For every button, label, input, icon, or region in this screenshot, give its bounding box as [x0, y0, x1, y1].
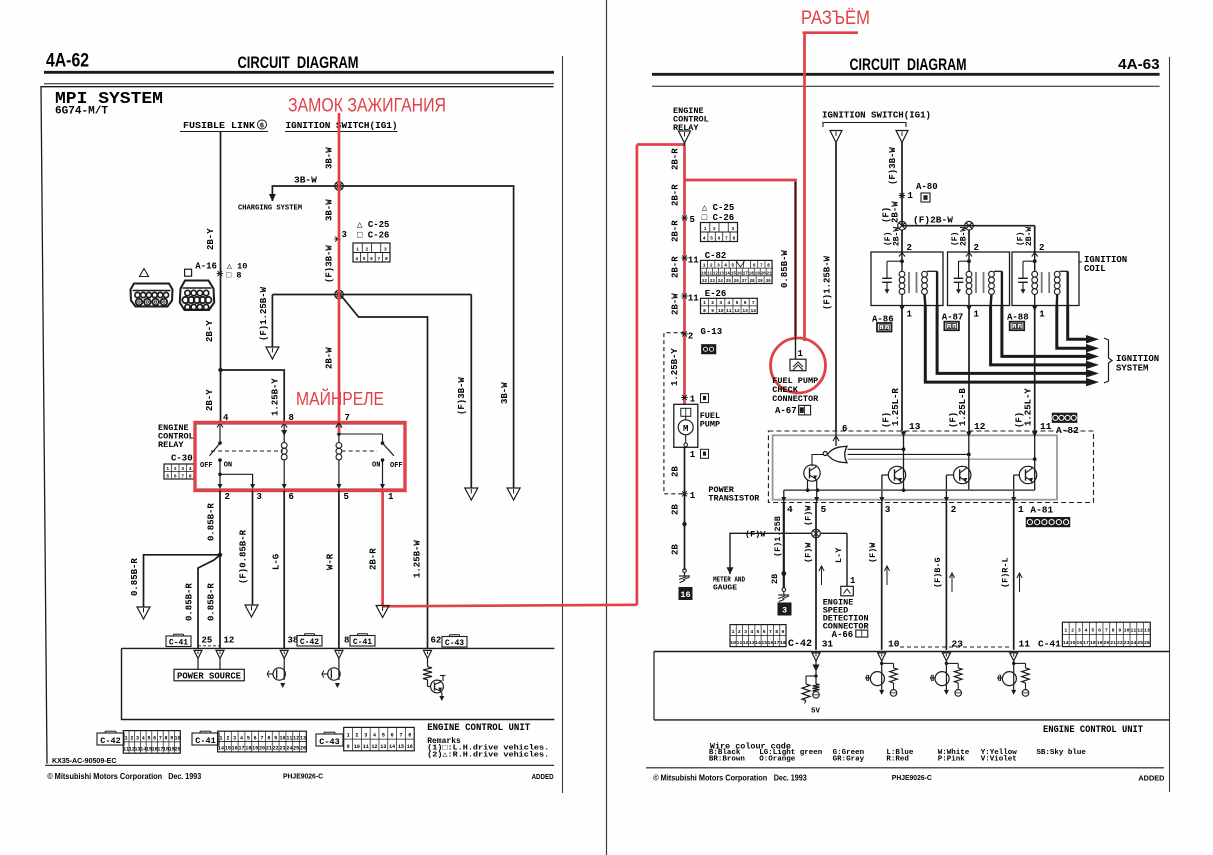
svg-text:3: 3: [364, 733, 367, 739]
power transistor dashed box: [768, 431, 1093, 503]
wire pin1 to ECU 11: [1013, 503, 1015, 650]
svg-text:2B-R: 2B-R: [671, 256, 681, 278]
power transistor inner box: [773, 435, 1057, 499]
svg-text:10: 10: [1124, 628, 1130, 634]
svg-text:19: 19: [252, 746, 258, 752]
svg-text:8: 8: [703, 308, 706, 314]
multi-pin connector drawing left: [131, 284, 173, 307]
svg-text:16: 16: [680, 590, 690, 600]
svg-text:0.85B-R: 0.85B-R: [185, 583, 195, 621]
svg-text:29: 29: [758, 280, 764, 284]
svg-text:17: 17: [774, 640, 780, 646]
svg-text:1: 1: [798, 349, 804, 359]
svg-text:6: 6: [260, 123, 264, 131]
black box 16: [679, 588, 692, 600]
svg-text:IGNITION: IGNITION: [1116, 354, 1159, 364]
svg-text:16: 16: [232, 746, 238, 752]
fusible link circled 6: [258, 120, 267, 129]
marker star 1 A-80: [899, 195, 905, 197]
wire pin3 to ECU 10: [881, 503, 883, 650]
wire right branch (F)3B-W down: [470, 295, 472, 489]
svg-text:7: 7: [181, 473, 184, 479]
svg-text:CIRCUIT DIAGRAM: CIRCUIT DIAGRAM: [850, 56, 967, 74]
svg-text:ADDED: ADDED: [1138, 774, 1165, 783]
svg-text:9: 9: [170, 735, 173, 741]
svg-text:3: 3: [885, 504, 891, 515]
svg-text:22: 22: [273, 746, 279, 752]
svg-text:(F)W: (F)W: [868, 542, 878, 563]
relay internals left switch: [217, 423, 223, 428]
svg-text:A-66: A-66: [832, 630, 854, 640]
svg-text:МАЙНРЕЛЕ: МАЙНРЕЛЕ: [296, 388, 384, 409]
svg-text:4: 4: [724, 263, 727, 269]
wire pin1 2B-R black arrow: [376, 606, 389, 618]
svg-text:(F)3B-W: (F)3B-W: [457, 377, 467, 415]
ground fuel pump: [683, 569, 687, 573]
svg-text:2: 2: [365, 247, 368, 253]
wire branch 25: [198, 555, 220, 649]
svg-text:CHARGING SYSTEM: CHARGING SYSTEM: [238, 205, 302, 213]
svg-text:2B: 2B: [770, 574, 780, 584]
bottom connector C-42 label: [97, 733, 124, 745]
svg-text:3: 3: [744, 629, 747, 635]
svg-text:5: 5: [1091, 628, 1094, 634]
svg-text:3: 3: [719, 300, 722, 306]
svg-text:L-G: L-G: [272, 554, 282, 570]
svg-text:9: 9: [781, 629, 784, 635]
svg-text:A-16: A-16: [195, 262, 217, 272]
wire engine control relay to fuel pump: [684, 143, 686, 404]
arrow D incoming: [830, 131, 842, 143]
svg-text:FUSIBLE LINK: FUSIBLE LINK: [183, 120, 255, 131]
connector C-42 right grid: [730, 625, 786, 647]
svg-text:1: 1: [732, 629, 735, 635]
svg-text:4: 4: [355, 256, 358, 262]
svg-text:(F)2B-W: (F)2B-W: [913, 215, 953, 226]
svg-text:SYSTEM: SYSTEM: [1116, 364, 1148, 374]
wire engine speed detection connector: [846, 533, 848, 586]
svg-text:12: 12: [734, 308, 740, 314]
svg-text:11: 11: [363, 744, 369, 750]
svg-text:8: 8: [1112, 628, 1115, 634]
collector verticals: [903, 431, 905, 490]
transistor T2: [888, 466, 905, 483]
svg-text:(F)0.85B-R: (F)0.85B-R: [239, 529, 249, 584]
svg-text:0.85B-W: 0.85B-W: [780, 250, 790, 288]
svg-text:15: 15: [398, 744, 404, 750]
svg-text:1: 1: [907, 310, 913, 320]
red wire engine control relay down: [683, 146, 686, 404]
wire horizontal charging system branch: [272, 186, 513, 488]
svg-text:L-Y: L-Y: [834, 547, 844, 563]
svg-text:24: 24: [1131, 640, 1137, 646]
svg-text:2B-R: 2B-R: [671, 148, 681, 170]
svg-text:5: 5: [731, 263, 734, 269]
svg-text:3: 3: [233, 735, 236, 741]
wire horizontal to 1.25B-W branch: [272, 294, 471, 296]
svg-text:20: 20: [761, 272, 767, 276]
svg-text:2: 2: [711, 300, 714, 306]
svg-text:5: 5: [821, 504, 827, 515]
svg-text:1: 1: [703, 300, 706, 306]
svg-text:□ C-26: □ C-26: [702, 213, 734, 223]
svg-text:GAUGE: GAUGE: [713, 585, 738, 593]
red wire to engine control relay arrow: [637, 143, 685, 146]
red branch from relay wire to connector: [685, 180, 796, 337]
svg-text:4: 4: [1085, 628, 1088, 634]
red wire right page vertical up: [636, 145, 639, 605]
svg-text:11: 11: [1131, 628, 1137, 634]
svg-text:1: 1: [220, 735, 223, 741]
svg-text:6: 6: [763, 629, 766, 635]
svg-text:C-42: C-42: [788, 639, 812, 650]
svg-text:25: 25: [726, 280, 732, 284]
black box 3: [778, 603, 791, 615]
svg-text:2B-W: 2B-W: [960, 227, 969, 246]
svg-text:1.25L-B: 1.25L-B: [958, 388, 968, 426]
page divider line: [606, 0, 608, 855]
svg-text:14: 14: [218, 746, 224, 752]
svg-text:25: 25: [293, 746, 299, 752]
svg-text:7: 7: [159, 735, 162, 741]
wire pin5 to ECU 31: [815, 503, 817, 650]
svg-text:7: 7: [725, 236, 728, 242]
svg-text:16: 16: [407, 744, 413, 750]
wire ignition switch 3B-W black: [338, 132, 340, 425]
svg-text:6: 6: [753, 263, 756, 269]
svg-text:5: 5: [690, 215, 695, 225]
connector C-25/C-26 grid: [353, 243, 390, 262]
svg-text:E-26: E-26: [705, 289, 727, 299]
svg-text:PHJE9026-C: PHJE9026-C: [283, 772, 324, 781]
svg-text:15: 15: [225, 746, 231, 752]
svg-text:KX35-AC-90509-EC: KX35-AC-90509-EC: [52, 758, 117, 765]
svg-text:3: 3: [342, 230, 347, 240]
svg-text:12: 12: [372, 744, 378, 750]
svg-text:2: 2: [951, 504, 957, 515]
svg-text:(F)W: (F)W: [745, 530, 766, 540]
svg-text:12: 12: [713, 272, 719, 276]
svg-text:CIRCUIT DIAGRAM: CIRCUIT DIAGRAM: [238, 53, 359, 72]
ECU pin labels: [166, 636, 191, 647]
svg-text:14: 14: [725, 272, 731, 276]
wire pin6 L-G: [283, 491, 285, 649]
svg-text:3B-W: 3B-W: [325, 147, 335, 169]
svg-text:6G74-M/T: 6G74-M/T: [55, 106, 108, 118]
svg-text:OFF: OFF: [200, 462, 213, 470]
dashed connector bracket pins 25 12: [198, 645, 220, 647]
svg-text:8: 8: [385, 256, 388, 262]
svg-text:4: 4: [240, 735, 243, 741]
wire 0.85B-W to check connector: [795, 182, 797, 359]
connector C-82 grid: [701, 260, 773, 283]
svg-text:17: 17: [743, 272, 749, 276]
svg-text:2: 2: [688, 331, 693, 341]
svg-text:11: 11: [286, 735, 292, 741]
svg-text:1: 1: [1064, 628, 1067, 634]
svg-text:2: 2: [174, 466, 177, 472]
svg-text:6: 6: [1098, 628, 1101, 634]
wire (F)1.25B-W to power transistor: [835, 143, 837, 432]
svg-text:2B-W: 2B-W: [1025, 227, 1034, 246]
svg-text:30: 30: [766, 280, 772, 284]
svg-text:1: 1: [1018, 504, 1024, 515]
svg-text:9: 9: [1118, 628, 1121, 634]
svg-text:6: 6: [153, 735, 156, 741]
svg-text:7: 7: [399, 733, 402, 739]
svg-text:5: 5: [757, 629, 760, 635]
svg-text:A-67: A-67: [775, 406, 797, 416]
junction circle X lower: [335, 290, 344, 299]
svg-text:2B-R: 2B-R: [671, 220, 681, 242]
svg-text:5: 5: [247, 735, 250, 741]
ignition switch bracket: [823, 123, 906, 128]
connector marker A-16 star: [217, 273, 223, 275]
svg-text:(F)R-L: (F)R-L: [1001, 557, 1011, 588]
svg-text:РАЗЪЁМ: РАЗЪЁМ: [801, 7, 870, 29]
svg-text:A-80: A-80: [916, 182, 938, 192]
relay black outline: [196, 424, 405, 489]
svg-text:C-42: C-42: [100, 736, 120, 746]
svg-text:13: 13: [1144, 628, 1150, 634]
svg-text:26: 26: [1144, 640, 1150, 646]
svg-text:1.25B-Y: 1.25B-Y: [670, 348, 680, 386]
right page edge line: [1169, 57, 1171, 792]
svg-text:METER AND: METER AND: [713, 577, 745, 585]
svg-text:PUMP: PUMP: [700, 420, 720, 430]
wire meter and gauge branch: [730, 533, 811, 574]
svg-text:△ C-25: △ C-25: [357, 220, 389, 230]
svg-text:2B: 2B: [671, 504, 681, 515]
marker star 5: [681, 217, 687, 219]
connector E-26 grid: [701, 298, 758, 313]
svg-text:22: 22: [702, 280, 708, 284]
red wire relay pin1 down: [381, 489, 384, 606]
svg-text:Dec. 1993: Dec. 1993: [168, 772, 201, 781]
svg-text:3: 3: [731, 226, 734, 232]
svg-text:8: 8: [165, 735, 168, 741]
svg-text:11: 11: [707, 272, 713, 276]
svg-text:8: 8: [344, 636, 349, 646]
gate input lines: [848, 448, 904, 450]
svg-text:21: 21: [1110, 640, 1116, 646]
svg-text:3: 3: [1078, 628, 1081, 634]
connector C-30 grid: [164, 464, 194, 479]
svg-text:11: 11: [1019, 639, 1031, 650]
red circle around fuel pump check connector: [771, 338, 826, 393]
ignition coil box 2: [948, 252, 1010, 306]
svg-text:24: 24: [286, 746, 292, 752]
coil feed drops: [901, 230, 903, 252]
svg-text:TRANSISTOR: TRANSISTOR: [708, 494, 760, 504]
svg-text:10: 10: [730, 640, 736, 646]
right ECU pin arrows: [812, 653, 820, 661]
svg-text:8: 8: [767, 263, 770, 269]
ECU transistor icon 1: [283, 658, 285, 680]
svg-text:0.85B-R: 0.85B-R: [207, 503, 217, 541]
relay coil left: [281, 423, 287, 428]
svg-text:4: 4: [728, 300, 731, 306]
svg-text:14: 14: [755, 640, 761, 646]
svg-text:ENGINE CONTROL UNIT: ENGINE CONTROL UNIT: [1043, 725, 1143, 736]
ECU resistor transistor pin62: [427, 658, 429, 666]
arrow (F)3B-W bottom: [465, 488, 478, 500]
svg-text:14: 14: [1063, 640, 1069, 646]
svg-text:1.25B-W: 1.25B-W: [413, 540, 423, 578]
svg-text:1: 1: [703, 263, 706, 269]
junction circle X upper: [335, 182, 344, 191]
svg-text:12: 12: [293, 735, 299, 741]
marker star 2 G-13: [681, 333, 687, 335]
ECU driver pin11: [1013, 660, 1015, 690]
svg-text:(F)1.25B-W: (F)1.25B-W: [823, 255, 833, 310]
connector C-41 right grid: [1062, 622, 1150, 646]
svg-text:21: 21: [266, 746, 272, 752]
svg-text:10: 10: [174, 735, 180, 741]
ignition system high tension leads: [925, 306, 1087, 383]
svg-text:6: 6: [744, 300, 747, 306]
svg-text:8: 8: [775, 629, 778, 635]
connector C-25/C-26 grid right: [701, 223, 738, 242]
relay pin7 entry arrow overlay: [336, 423, 342, 428]
svg-text:15: 15: [1070, 640, 1076, 646]
svg-text:26: 26: [300, 746, 306, 752]
svg-text:4A-62: 4A-62: [46, 51, 89, 72]
transistor T3: [954, 466, 971, 483]
svg-text:16: 16: [768, 640, 774, 646]
left page edge line: [562, 56, 564, 793]
svg-text:(F)B-G: (F)B-G: [933, 557, 943, 588]
svg-text:13: 13: [749, 640, 755, 646]
svg-text:C-82: C-82: [705, 251, 727, 261]
svg-text:M: M: [683, 424, 688, 434]
svg-text:3: 3: [257, 492, 262, 502]
svg-text:C-43: C-43: [445, 639, 464, 648]
relay internals right switch: [336, 423, 342, 428]
bottom connector C-43 grid: [344, 727, 415, 750]
multi-pin connector drawing right: [180, 281, 214, 311]
ECU driver pin23: [945, 660, 947, 690]
svg-text:W-R: W-R: [326, 553, 336, 570]
wire pin3 arrow: [252, 491, 254, 606]
svg-text:23: 23: [279, 746, 285, 752]
red wire ignition trace: [338, 113, 341, 433]
svg-text:13: 13: [909, 421, 921, 432]
ECU transistor icon 2: [338, 658, 340, 680]
transistor T1: [804, 465, 820, 481]
red relay highlight box MAIN RELAY: [195, 423, 405, 491]
svg-text:2: 2: [1071, 628, 1074, 634]
svg-text:0.85B-R: 0.85B-R: [130, 558, 140, 596]
svg-text:6: 6: [842, 424, 847, 434]
svg-text:5: 5: [166, 473, 169, 479]
svg-text:10: 10: [279, 735, 285, 741]
svg-text:19: 19: [1097, 640, 1103, 646]
svg-text:C-41: C-41: [353, 638, 372, 647]
svg-text:7: 7: [752, 300, 755, 306]
svg-text:2: 2: [355, 733, 358, 739]
junction dot fusible branch: [218, 368, 222, 372]
left header thin rule: [44, 83, 554, 85]
svg-text:(F)W: (F)W: [804, 505, 814, 526]
svg-text:15: 15: [761, 640, 767, 646]
svg-text:2: 2: [713, 226, 716, 232]
svg-text:14: 14: [750, 308, 756, 314]
triangle mark above connector: [140, 269, 149, 277]
wire pin2 0.85B-R: [219, 491, 221, 649]
svg-text:SB:Sky blue: SB:Sky blue: [1036, 749, 1086, 757]
svg-text:3: 3: [136, 735, 139, 741]
arrow engine control relay incoming: [679, 131, 691, 143]
gate output to T1: [812, 455, 824, 467]
svg-text:20: 20: [259, 746, 265, 752]
arrow 3B-W bottom: [507, 488, 520, 500]
wire fusible link vertical 2B-Y: [220, 132, 222, 422]
svg-text:1: 1: [356, 247, 359, 253]
dashed bracket right ECU: [900, 646, 1010, 648]
svg-text:(2)△:R.H.drive vehicles.: (2)△:R.H.drive vehicles.: [427, 751, 549, 759]
svg-text:9: 9: [711, 308, 714, 314]
right header thick rule: [652, 73, 1160, 76]
svg-text:(F)1.25B: (F)1.25B: [773, 516, 783, 557]
svg-text:RELAY: RELAY: [158, 440, 184, 450]
ignition coil box 1: [871, 252, 943, 306]
connector marker 3 star: [334, 238, 340, 240]
ECU zener pin31: [815, 661, 817, 684]
svg-text:2B-Y: 2B-Y: [205, 320, 215, 342]
svg-text:17: 17: [1083, 640, 1089, 646]
svg-text:□ C-26: □ C-26: [357, 231, 389, 241]
svg-text:23: 23: [952, 639, 964, 650]
wire pin2 to ECU 23: [945, 503, 947, 650]
svg-text:(F)3B-W: (F)3B-W: [325, 245, 335, 283]
relay coil right: [336, 443, 342, 449]
svg-text:16: 16: [737, 272, 743, 276]
svg-text:10: 10: [701, 272, 707, 276]
svg-text:11: 11: [688, 294, 699, 304]
svg-text:8: 8: [732, 236, 735, 242]
svg-text:(F)1.25B-W: (F)1.25B-W: [259, 286, 269, 341]
svg-text:2B-R: 2B-R: [671, 184, 681, 206]
red annotation line under text: [803, 31, 859, 34]
svg-text:11: 11: [1040, 421, 1052, 432]
svg-text:© Mitsubishi Motors Corporatio: © Mitsubishi Motors Corporation: [653, 774, 767, 783]
svg-text:ON: ON: [372, 462, 380, 470]
svg-text:13: 13: [719, 272, 725, 276]
red wire horizontal to right page: [383, 605, 637, 607]
svg-text:1.25L-R: 1.25L-R: [891, 388, 901, 426]
svg-text:G-13: G-13: [701, 327, 723, 337]
svg-text:12: 12: [974, 421, 986, 432]
svg-text:12: 12: [224, 636, 235, 646]
svg-text:0.85B-R: 0.85B-R: [207, 583, 217, 621]
right header thin rule: [652, 85, 1160, 87]
svg-text:1: 1: [690, 491, 696, 501]
svg-text:22: 22: [1117, 640, 1123, 646]
svg-text:4: 4: [703, 236, 706, 242]
POWER SOURCE box: [197, 658, 199, 669]
svg-text:14: 14: [389, 744, 395, 750]
svg-text:IGNITION SWITCH(IG1): IGNITION SWITCH(IG1): [286, 120, 398, 131]
svg-text:18: 18: [1090, 640, 1096, 646]
svg-text:15: 15: [731, 272, 737, 276]
wire diagonal junction to 1.25B-W: [339, 295, 428, 649]
svg-text:1: 1: [1039, 310, 1045, 320]
nor gate: [827, 446, 847, 462]
svg-text:2B-Y: 2B-Y: [205, 389, 215, 411]
svg-text:C-42: C-42: [300, 638, 319, 647]
svg-text:3B-W: 3B-W: [325, 199, 335, 221]
